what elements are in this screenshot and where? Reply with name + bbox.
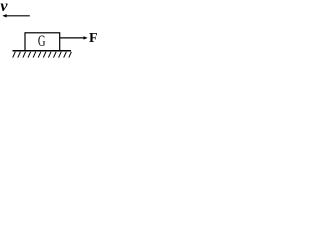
background [0,0,105,66]
velocity arrow (pointing left) [2,14,30,17]
ground hatching [13,52,72,58]
svg-text:F: F [89,31,98,46]
ground line [13,50,72,52]
force arrow F (pointing right) [60,36,88,39]
svg-text:G: G [38,32,46,50]
block G [25,33,60,51]
svg-text:v: v [0,0,8,15]
